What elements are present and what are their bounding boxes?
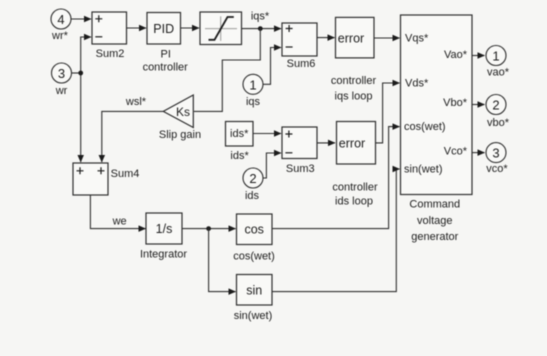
- svg-text:PID: PID: [153, 22, 174, 36]
- node we junction: [206, 226, 211, 231]
- svg-text:wr*: wr*: [51, 30, 69, 42]
- svg-text:Vao*: Vao*: [444, 49, 468, 61]
- wire generator to C1 vao: [472, 55, 485, 57]
- wire ids* block to Sum3 plus: [253, 133, 281, 135]
- svg-text:iqs loop: iqs loop: [335, 91, 373, 103]
- wire error2 to Vds* input: [376, 83, 400, 143]
- wire C2 ids feedback to Sum3 minus: [263, 153, 281, 178]
- source circle 1 (iqs): [243, 74, 263, 94]
- sum block Sum2: [92, 12, 127, 44]
- svg-text:Slip gain: Slip gain: [159, 129, 201, 141]
- caption texts: [51, 11, 510, 323]
- sum block Sum3: [282, 127, 317, 159]
- plus sign Sum3: [285, 131, 292, 138]
- wire wr vertical junction up to Sum2 minus: [81, 37, 91, 73]
- output circle 1 (vao*): [486, 46, 506, 66]
- block error1 (controller iqs loop): [336, 17, 375, 58]
- block Command voltage generator: [401, 15, 473, 195]
- svg-text:iqs*: iqs*: [251, 11, 270, 23]
- svg-text:voltage: voltage: [417, 215, 452, 227]
- block error2 (controller ids loop): [337, 122, 376, 165]
- wire Sum6 to error1: [317, 37, 335, 39]
- svg-text:ids: ids: [245, 190, 260, 202]
- sum block Sum4: [73, 163, 108, 195]
- svg-text:Sum2: Sum2: [96, 48, 125, 60]
- wire wr vertical down to Sum4 input 1: [80, 73, 82, 162]
- wire Sum4 output we to Integrator: [90, 195, 145, 229]
- svg-text:4: 4: [57, 12, 64, 27]
- svg-text:PI: PI: [160, 49, 170, 61]
- block Integrator 1/s: [146, 213, 182, 244]
- wire junction down to sin: [209, 229, 236, 292]
- svg-text:Vqs*: Vqs*: [405, 33, 429, 45]
- svg-text:controller: controller: [332, 182, 378, 194]
- wire PID to saturation: [181, 27, 200, 29]
- wire Sum3 to error2: [317, 142, 335, 144]
- output circle 3 (vco*): [486, 143, 506, 163]
- gain triangle Ks (slip gain): [163, 95, 193, 128]
- wire wr stub from C3 to junction: [72, 72, 81, 74]
- wire Sum2 to PID: [127, 27, 147, 29]
- plus sign Sum6: [286, 25, 293, 32]
- svg-text:sin(wet): sin(wet): [404, 164, 443, 176]
- svg-text:wsl*: wsl*: [125, 96, 147, 108]
- svg-text:wr: wr: [55, 85, 68, 97]
- minus sign Sum6: [286, 46, 293, 48]
- svg-text:vao*: vao*: [487, 67, 510, 79]
- plus sign Sum4 right: [98, 167, 105, 174]
- wire saturation to Sum6 plus (iqs* net): [242, 28, 282, 30]
- saturation icon: [205, 16, 237, 41]
- generator port labels: [404, 33, 468, 176]
- wire C4 to Sum2 plus: [72, 18, 92, 20]
- sum block Sum6: [282, 23, 317, 56]
- wire Integrator to cos: [182, 228, 236, 230]
- svg-text:we: we: [112, 216, 127, 228]
- node wr junction: [78, 71, 83, 76]
- svg-text:controller: controller: [331, 75, 377, 87]
- svg-text:Integrator: Integrator: [140, 249, 187, 261]
- svg-text:Sum4: Sum4: [111, 168, 140, 180]
- svg-text:Command: Command: [409, 199, 460, 211]
- svg-text:sin: sin: [246, 284, 262, 298]
- svg-text:2: 2: [492, 98, 499, 113]
- svg-text:Sum6: Sum6: [287, 58, 316, 70]
- svg-text:3: 3: [58, 66, 65, 81]
- node iqs* junction: [258, 26, 263, 31]
- svg-text:vco*: vco*: [486, 163, 508, 175]
- svg-text:ids loop: ids loop: [335, 196, 373, 208]
- svg-text:error: error: [339, 136, 365, 150]
- source circle 2 (ids): [243, 168, 263, 188]
- svg-text:Sum3: Sum3: [286, 163, 315, 175]
- block cos: [237, 214, 273, 245]
- svg-text:generator: generator: [411, 231, 458, 243]
- block inner texts: [153, 22, 365, 298]
- wire sin output to sin(wet) input: [272, 169, 400, 292]
- wire error1 to Vqs* input: [374, 37, 400, 39]
- svg-text:ids*: ids*: [230, 150, 249, 162]
- svg-text:cos: cos: [244, 223, 263, 237]
- wire wsl* from Ks tip to Sum4 input 2: [102, 111, 164, 162]
- svg-text:1: 1: [492, 49, 499, 64]
- minus sign Sum3: [285, 152, 292, 154]
- block PID (PI controller): [147, 13, 181, 45]
- svg-text:Ks: Ks: [176, 105, 190, 119]
- svg-text:1: 1: [249, 77, 256, 92]
- svg-text:cos(wet): cos(wet): [404, 121, 446, 133]
- svg-text:1/s: 1/s: [156, 222, 173, 236]
- source circle 3 (wr): [52, 63, 72, 83]
- plus sign Sum2: [95, 15, 102, 22]
- svg-text:Vco*: Vco*: [444, 145, 468, 157]
- block saturation: [200, 12, 242, 45]
- svg-text:controller: controller: [143, 62, 189, 74]
- minus sign Sum2: [95, 36, 102, 38]
- block sin: [237, 275, 273, 306]
- svg-text:2: 2: [249, 171, 256, 186]
- svg-text:Vbo*: Vbo*: [443, 97, 468, 109]
- svg-text:cos(wet): cos(wet): [233, 251, 275, 263]
- svg-text:sin(wet): sin(wet): [234, 310, 273, 322]
- output circle 2 (vbo*): [486, 95, 506, 115]
- svg-text:error: error: [338, 31, 364, 45]
- plus sign Sum4 left: [77, 167, 84, 174]
- svg-text:iqs: iqs: [246, 96, 261, 108]
- wire generator to C3 vco: [472, 152, 485, 154]
- svg-text:vbo*: vbo*: [487, 117, 510, 129]
- svg-text:3: 3: [492, 146, 499, 161]
- svg-text:ids*: ids*: [230, 128, 249, 140]
- wire C1 iqs feedback to Sum6 minus: [263, 48, 281, 85]
- block ids* constant: [226, 122, 254, 147]
- wire generator to C2 vbo: [472, 104, 485, 106]
- source circle 4 (wr*): [51, 9, 71, 29]
- wire iqs* branch down to Ks input: [194, 29, 260, 112]
- svg-text:Vds*: Vds*: [405, 78, 429, 90]
- wire cos output to cos(wet) input: [272, 127, 400, 229]
